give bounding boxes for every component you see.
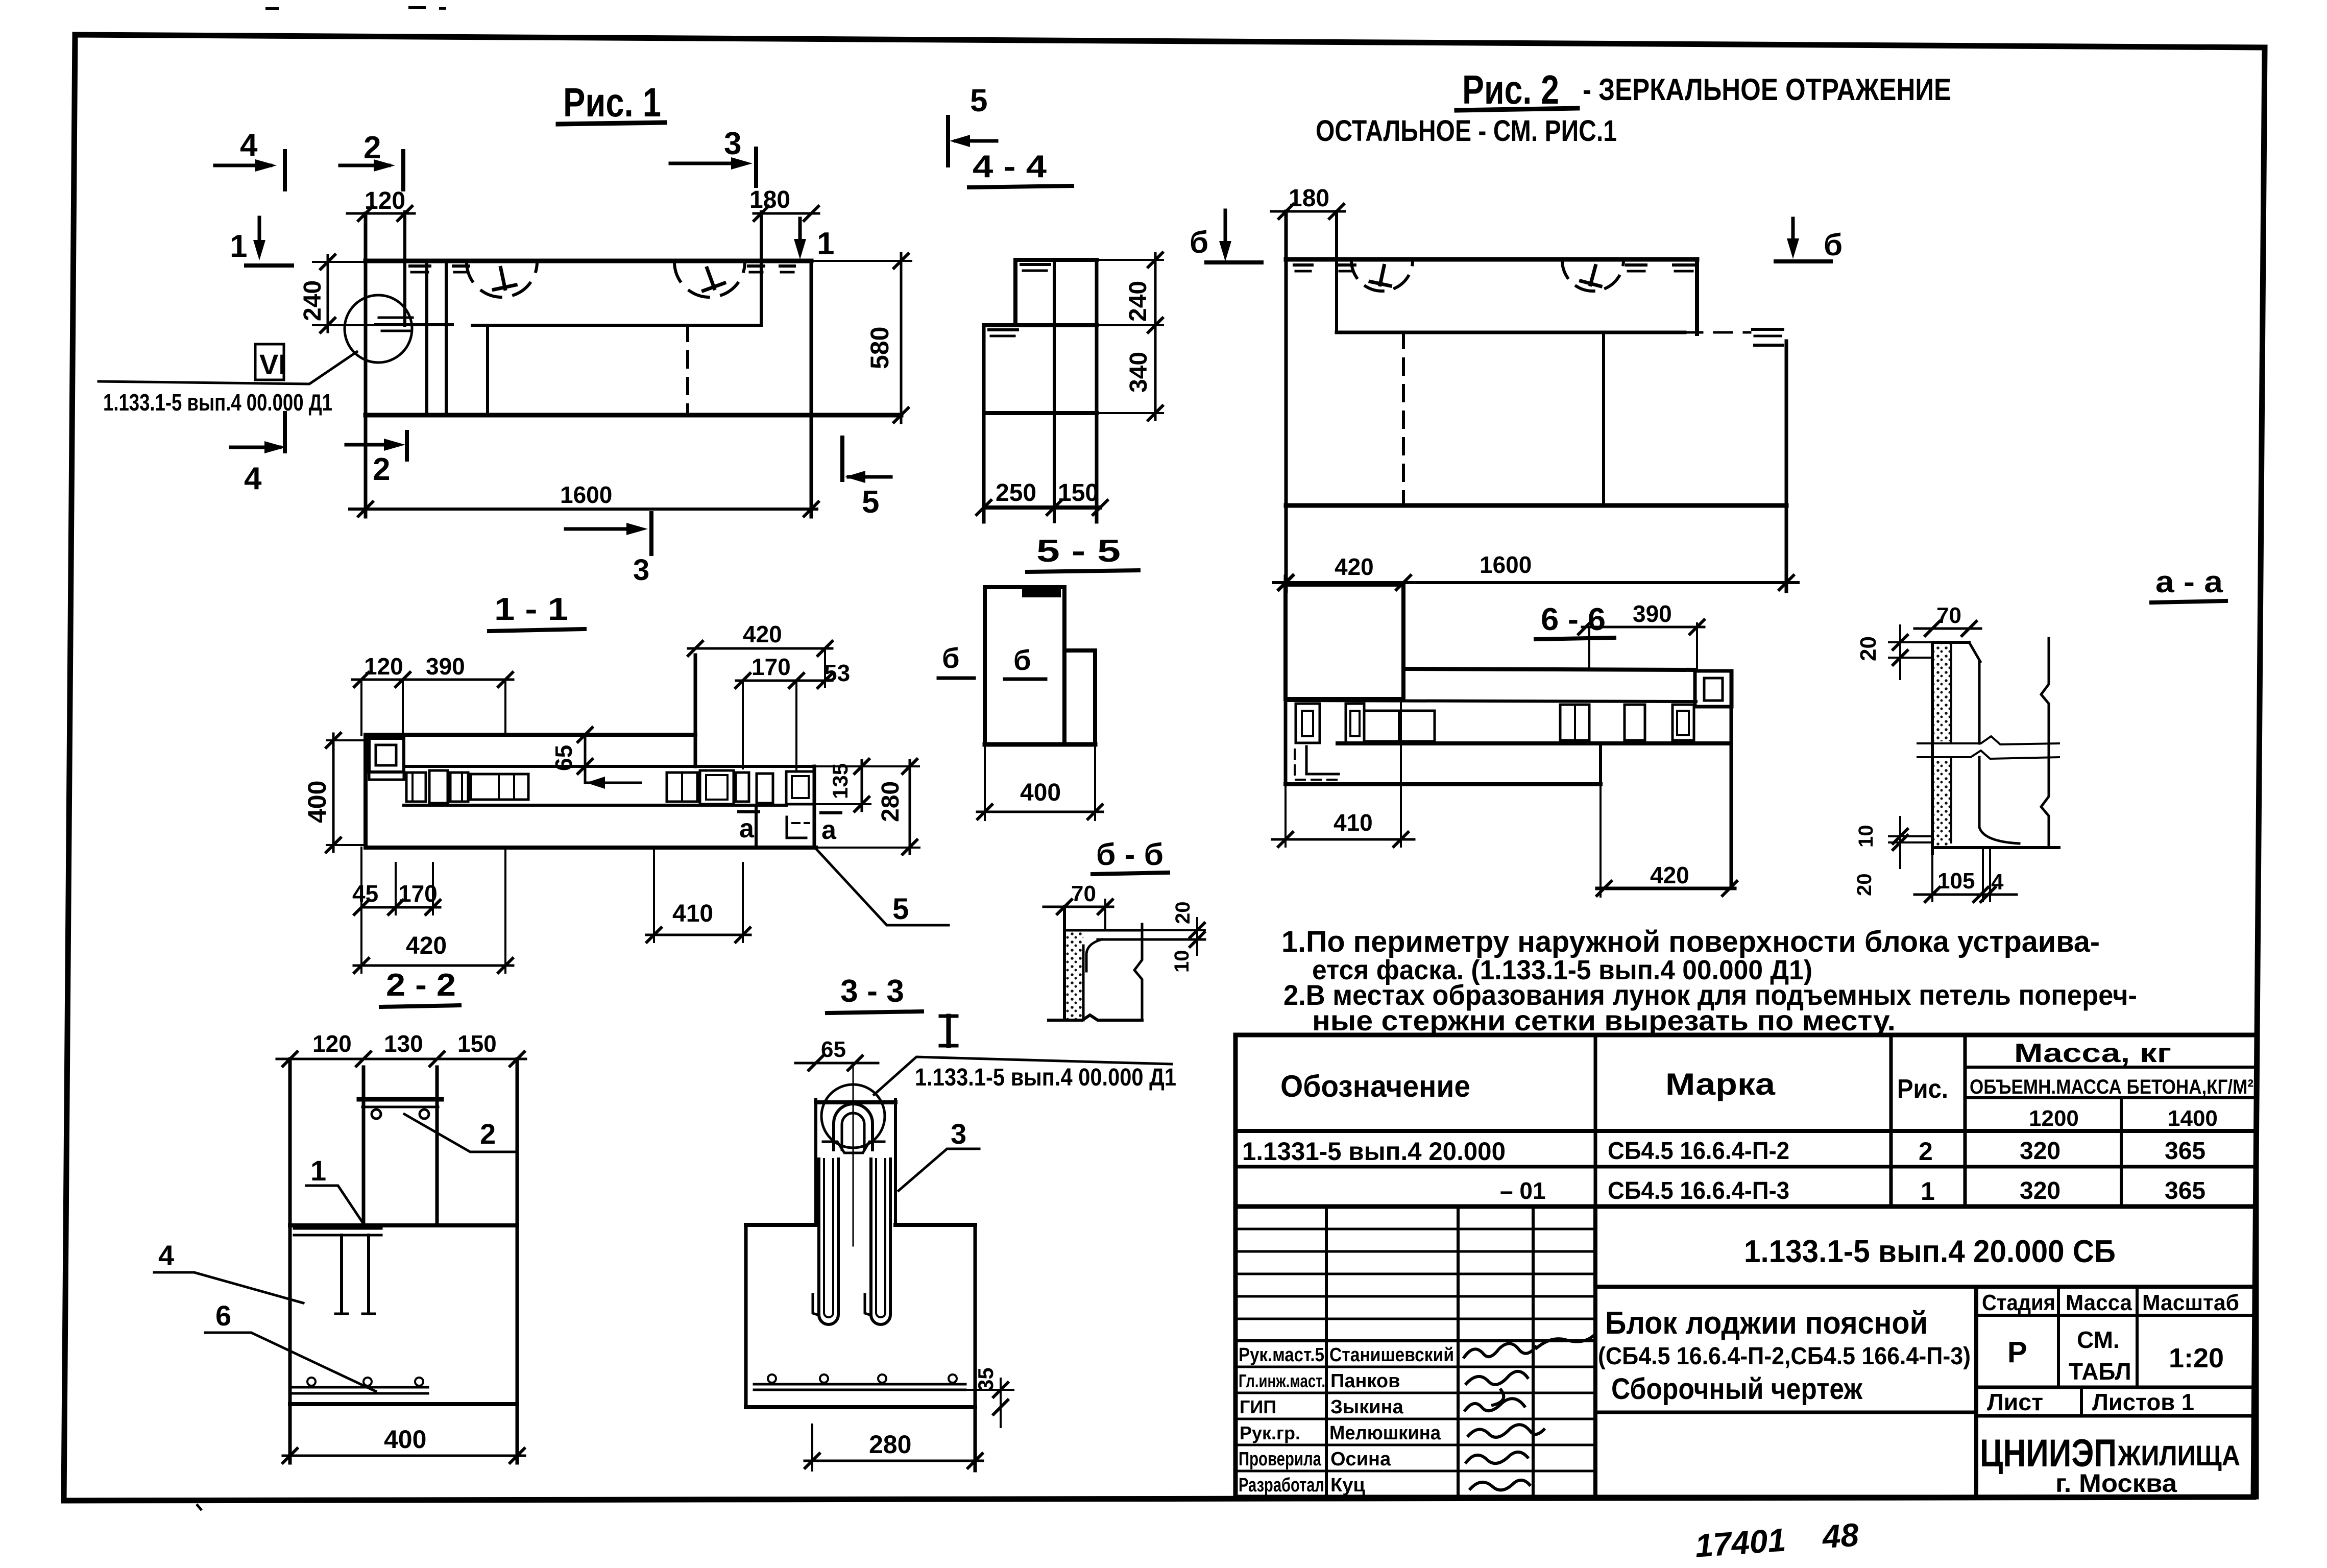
- svg-text:3: 3: [633, 553, 649, 587]
- dust speck 2: [408, 6, 426, 9]
- svg-text:4 - 4: 4 - 4: [973, 149, 1047, 184]
- fascia foot dash: [792, 822, 809, 824]
- svg-text:4: 4: [158, 1239, 174, 1271]
- svg-text:1.1331-5 вып.4 20.000: 1.1331-5 вып.4 20.000: [1242, 1137, 1506, 1166]
- svg-text:420: 420: [406, 932, 447, 959]
- embed box row 2: [429, 770, 448, 803]
- dim 400: [977, 811, 1103, 813]
- б mark left: [938, 642, 974, 678]
- embed box 1: [1296, 704, 1320, 743]
- bottom edge: [1932, 846, 2059, 849]
- leader 2: [404, 1114, 516, 1152]
- cut marker 4 top: [215, 128, 285, 189]
- label underline: [1093, 873, 1168, 874]
- svg-text:410: 410: [672, 900, 713, 927]
- solid vertical: [1602, 332, 1605, 505]
- bottom line: [1049, 1015, 1142, 1020]
- end square inner: [1704, 678, 1723, 701]
- svg-text:б: б: [1824, 228, 1843, 262]
- left embed square inner: [376, 745, 396, 765]
- a mark left: [739, 812, 759, 843]
- bottom edge: [984, 505, 1100, 510]
- parapet right: [435, 1067, 439, 1225]
- svg-text:Лист: Лист: [1987, 1389, 2043, 1415]
- svg-text:Рис. 1: Рис. 1: [563, 80, 661, 125]
- svg-text:45: 45: [352, 880, 378, 907]
- upper right edge: [1695, 259, 1699, 334]
- thin row 5: [1235, 1318, 1595, 1320]
- embed box right small: [736, 773, 749, 802]
- svg-text:Осина: Осина: [1330, 1449, 1391, 1470]
- plate mark 4: [780, 264, 794, 268]
- thin row 4: [1235, 1295, 1595, 1298]
- cut marker 5 bottomright: [842, 438, 891, 520]
- label underline: [381, 1005, 459, 1007]
- lower ext: [1097, 412, 1163, 414]
- block right: [974, 1225, 977, 1470]
- dim 280: [909, 760, 911, 854]
- foot: [1979, 827, 2019, 843]
- strip edge 180: [1335, 211, 1338, 332]
- top edge: [1015, 258, 1097, 262]
- inner rib vertical: [755, 805, 758, 848]
- bottom edge: [1286, 503, 1786, 508]
- dim 580: [811, 260, 911, 262]
- svg-text:1.133.1-5 вып.4 20.000 СБ: 1.133.1-5 вып.4 20.000 СБ: [1744, 1234, 2116, 1269]
- svg-text:240: 240: [299, 280, 326, 321]
- svg-text:1400: 1400: [2168, 1106, 2218, 1131]
- row2 bottom / title block top: [1235, 1204, 2257, 1209]
- svg-text:a: a: [821, 815, 837, 845]
- slab bottom line: [404, 804, 786, 807]
- VI box: [255, 344, 284, 380]
- масса кг subline: [1965, 1066, 2257, 1069]
- svg-text:365: 365: [2165, 1177, 2205, 1204]
- svg-text:ные стержни сетки вырезать: ные стержни сетки вырезать по месту.: [1312, 1004, 1896, 1036]
- step plate marks: [1753, 328, 1783, 331]
- deep portion bottom with 420 dim: [1597, 887, 1735, 890]
- fascia foot: [787, 817, 806, 838]
- svg-text:17401: 17401: [1694, 1521, 1787, 1564]
- block bottom: [746, 1405, 975, 1409]
- fascia box outer: [786, 771, 814, 804]
- cut marker 1 topright: [794, 219, 834, 261]
- svg-text:Панков: Панков: [1330, 1370, 1400, 1392]
- centerline: [853, 1063, 854, 1246]
- cut marker 1 topleft: [230, 218, 292, 266]
- lifting loop inner: [842, 1113, 864, 1150]
- mesh studs: [768, 1374, 776, 1383]
- cut marker 2 bottom: [346, 432, 407, 487]
- fascia box a: [757, 774, 773, 803]
- lower step edge: [984, 411, 1097, 415]
- hairpin 2 outer: [871, 1159, 890, 1324]
- svg-text:250: 250: [996, 479, 1036, 506]
- svg-text:1.133.1-5 вып.4 00.000 Д1: 1.133.1-5 вып.4 00.000 Д1: [915, 1064, 1176, 1091]
- svg-text:70: 70: [1936, 603, 1961, 628]
- block bottom: [290, 1402, 517, 1406]
- svg-text:б: б: [942, 642, 960, 674]
- lifting pocket semicircle left: [467, 262, 537, 297]
- left edge: [1284, 576, 1288, 784]
- bolt left: [372, 1109, 381, 1119]
- svg-text:5: 5: [862, 485, 879, 520]
- dust speck 3: [439, 7, 446, 10]
- svg-text:2: 2: [373, 452, 390, 487]
- block top right: [895, 1223, 975, 1227]
- thin row 1: [1235, 1228, 1595, 1231]
- chamfer: [1969, 642, 1980, 662]
- svg-text:420: 420: [1335, 553, 1374, 580]
- mesh: [754, 1383, 965, 1386]
- loop glyph right: [696, 264, 725, 293]
- step line left fragment: [376, 323, 452, 326]
- svg-text:420: 420: [1650, 862, 1689, 888]
- svg-text:1: 1: [1921, 1177, 1935, 1205]
- svg-text:a: a: [739, 814, 755, 843]
- svg-text:2: 2: [1919, 1137, 1933, 1166]
- dim 240: [1154, 253, 1157, 332]
- parapet top plate: [359, 1097, 442, 1102]
- dim 420 topright: [688, 647, 832, 650]
- block left edge: [364, 213, 368, 517]
- slab top edge: [1403, 669, 1695, 670]
- leader to VI label: [99, 352, 357, 384]
- dim 240: [313, 261, 366, 263]
- hairpin 2 inner: [876, 1159, 885, 1317]
- pocket semicircle right: [1562, 260, 1623, 291]
- svg-text:1: 1: [817, 226, 834, 261]
- right edge: [1730, 671, 1733, 888]
- лист row bottom: [1976, 1414, 2257, 1418]
- pocket semicircle left: [1351, 260, 1413, 291]
- svg-text:VI: VI: [259, 348, 286, 380]
- label underline: [2151, 601, 2226, 602]
- svg-text:Зыкина: Зыкина: [1330, 1396, 1404, 1418]
- svg-text:Обозначение: Обозначение: [1280, 1069, 1470, 1103]
- svg-text:580: 580: [865, 327, 894, 369]
- svg-text:б: б: [1013, 644, 1031, 676]
- hairpin 2 hook: [865, 1294, 871, 1315]
- portion step vline: [1599, 743, 1602, 784]
- dim 250 150: [977, 500, 991, 515]
- svg-text:1600: 1600: [560, 481, 612, 508]
- end square outer: [1695, 671, 1732, 707]
- dim 280: [811, 1425, 813, 1470]
- anchor leg 1: [340, 1235, 343, 1314]
- inner concrete edge: [1082, 946, 1085, 1020]
- label underline: [827, 1011, 922, 1013]
- embed box right wide: [667, 773, 697, 802]
- staff/title divider: [1593, 1207, 1597, 1497]
- dim 400: [327, 739, 366, 741]
- hairpin 1 inner: [824, 1159, 833, 1317]
- svg-text:ОСТАЛЬНОЕ - СМ. РИС.1: ОСТАЛЬНОЕ - СМ. РИС.1: [1316, 114, 1617, 148]
- block right: [516, 1059, 519, 1463]
- loop glyph left: [1370, 263, 1394, 286]
- б mark inner: [1005, 644, 1046, 679]
- svg-text:Масса, кг: Масса, кг: [2014, 1039, 2171, 1068]
- svg-text:3: 3: [724, 126, 741, 161]
- dim 120 390 top: [352, 679, 513, 681]
- glyph I: [940, 1016, 957, 1046]
- anchor leg 2: [367, 1235, 370, 1314]
- cut marker 5 topright: [948, 83, 997, 165]
- left embed base: [369, 772, 404, 780]
- svg-text:- ЗЕРКАЛЬНОЕ ОТРАЖЕНИЕ: - ЗЕРКАЛЬНОЕ ОТРАЖЕНИЕ: [1583, 73, 1951, 107]
- dim 180: [754, 212, 819, 215]
- title underline: [558, 123, 665, 124]
- name cell bottom: [1595, 1411, 1976, 1414]
- svg-text:2 - 2: 2 - 2: [386, 968, 456, 1003]
- embed long box: [471, 774, 528, 800]
- detail circle I: [821, 1084, 885, 1148]
- right step rect: [1064, 650, 1095, 744]
- hairpin 1 hook: [813, 1294, 819, 1315]
- svg-text:1600: 1600: [1480, 551, 1532, 578]
- svg-text:135: 135: [828, 763, 852, 799]
- mesh lines: [292, 1386, 428, 1389]
- anchor plate: [294, 1227, 381, 1230]
- wall top: [1932, 641, 1969, 644]
- plate marks top edge: [1294, 263, 1312, 267]
- signatures: [1464, 1343, 1536, 1357]
- dust speck 1: [265, 7, 279, 10]
- svg-text:170: 170: [752, 654, 791, 680]
- step vertical: [694, 655, 697, 766]
- plate mark mid: [989, 328, 1017, 331]
- block top edge: [366, 259, 811, 263]
- leader 5: [816, 849, 949, 925]
- title underline: [1457, 108, 1578, 110]
- svg-text:4: 4: [244, 461, 262, 496]
- wall outer edge: [1931, 642, 1934, 854]
- svg-text:340: 340: [1125, 352, 1152, 393]
- svg-text:3: 3: [951, 1118, 966, 1150]
- svg-text:1:20: 1:20: [2169, 1343, 2224, 1373]
- label underline: [969, 186, 1072, 187]
- label underline: [1536, 638, 1614, 639]
- svg-text:ЖИЛИЩА: ЖИЛИЩА: [2117, 1439, 2240, 1471]
- dim 420 bottom: [360, 848, 362, 973]
- staff col 1: [1325, 1207, 1328, 1497]
- dim 410: [1272, 838, 1414, 841]
- block right edge: [810, 261, 813, 517]
- strip edge 120: [403, 212, 406, 325]
- left portion bottom: [1286, 782, 1601, 786]
- svg-text:Разработал: Разработал: [1239, 1475, 1324, 1496]
- svg-text:(СБ4.5 16.6.4-П-2,СБ4.5 166.4-: (СБ4.5 16.6.4-П-2,СБ4.5 166.4-П-3): [1598, 1343, 1971, 1370]
- объемн subline: [1965, 1096, 2257, 1099]
- handwritten page numbers: [1694, 1516, 1860, 1564]
- block left: [288, 1059, 292, 1463]
- svg-text:Блок лоджии поясной: Блок лоджии поясной: [1605, 1306, 1928, 1341]
- embed box 5: [1625, 705, 1645, 740]
- top edge: [366, 733, 695, 737]
- cut marker 4 bottom: [231, 413, 286, 496]
- svg-text:390: 390: [1633, 600, 1672, 627]
- svg-text:120: 120: [364, 653, 403, 680]
- mid step edge: [984, 323, 1097, 327]
- stem right: [894, 1099, 897, 1225]
- tall rect: [985, 587, 1064, 744]
- ext left: [984, 744, 986, 820]
- svg-text:280: 280: [869, 1430, 911, 1459]
- inner face lower: [1978, 757, 1981, 827]
- left edge lower: [982, 325, 986, 522]
- notch vertical: [760, 212, 763, 325]
- dim 120: [347, 212, 415, 215]
- top ext: [1097, 259, 1163, 261]
- svg-text:1 - 1: 1 - 1: [494, 592, 568, 627]
- svg-text:2: 2: [363, 130, 381, 165]
- svg-text:4: 4: [240, 128, 258, 163]
- стадия/масса divider: [2057, 1287, 2060, 1387]
- svg-text:Р: Р: [2007, 1336, 2027, 1369]
- plate mark 1: [410, 264, 430, 268]
- step dim ext: [1599, 784, 1602, 897]
- inner face upper: [1978, 662, 1981, 743]
- rib dim 420: [1277, 582, 1413, 584]
- row1 bottom: [1235, 1165, 2257, 1169]
- label underline: [489, 629, 585, 631]
- left edge dim ext: [1284, 784, 1287, 847]
- right edge: [813, 766, 816, 848]
- recess trapezoid: [823, 1142, 884, 1153]
- svg-text:120: 120: [312, 1030, 352, 1057]
- thin row 3: [1235, 1273, 1595, 1275]
- leader I ref: [874, 1057, 1172, 1095]
- plate mark 2: [453, 264, 469, 268]
- concrete stipple: [1934, 644, 1951, 741]
- svg-text:1.По периметру наружной пове: 1.По периметру наружной поверхности блок…: [1281, 925, 2100, 958]
- svg-text:Масса: Масса: [2066, 1290, 2132, 1315]
- svg-text:Рис.: Рис.: [1897, 1074, 1948, 1104]
- dim 410 bottom: [653, 848, 655, 942]
- label underline: [1027, 570, 1138, 572]
- header bottom: [1235, 1129, 2257, 1133]
- svg-text:а - а: а - а: [2155, 565, 2223, 599]
- band bottom heavy: [1338, 741, 1731, 745]
- svg-text:6 - 6: 6 - 6: [1541, 602, 1606, 637]
- lifting loop outer: [834, 1104, 872, 1150]
- svg-text:б: б: [1190, 225, 1208, 259]
- left embed square outer: [369, 738, 404, 772]
- a mark right: [821, 813, 841, 845]
- dashed vertical: [1402, 332, 1405, 505]
- block top: [290, 1223, 517, 1227]
- dim 20 right: [1196, 918, 1198, 955]
- svg-text:150: 150: [457, 1030, 497, 1057]
- bolt right: [420, 1109, 429, 1119]
- name/stage divider: [1974, 1287, 1978, 1497]
- rib rect: [1286, 585, 1403, 699]
- dashed section vertical: [686, 325, 689, 415]
- svg-text:365: 365: [2165, 1138, 2205, 1165]
- svg-text:105: 105: [1937, 869, 1975, 894]
- joint double line b: [445, 261, 448, 415]
- svg-text:65: 65: [550, 745, 577, 771]
- step line: [472, 324, 761, 327]
- bottom heavy line: [985, 742, 1095, 747]
- svg-text:320: 320: [2020, 1138, 2061, 1165]
- svg-text:390: 390: [426, 653, 465, 680]
- top edge: [1064, 929, 1142, 932]
- detail circle VI: [345, 295, 412, 363]
- svg-text:Стадия: Стадия: [1982, 1290, 2055, 1315]
- лист/листов divider: [2080, 1387, 2083, 1416]
- band top line: [1286, 701, 1696, 702]
- svg-text:5 - 5: 5 - 5: [1036, 534, 1121, 569]
- svg-text:130: 130: [384, 1030, 423, 1057]
- svg-text:5: 5: [970, 83, 987, 118]
- left edge: [1063, 907, 1066, 1020]
- svg-text:СБ4.5 16.6.4-П-3: СБ4.5 16.6.4-П-3: [1608, 1177, 1789, 1204]
- svg-text:Листов 1: Листов 1: [2092, 1389, 2194, 1415]
- big doc number cell line: [1595, 1285, 2257, 1289]
- svg-text:Куц: Куц: [1330, 1475, 1365, 1496]
- concrete stipple: [1066, 930, 1083, 1020]
- svg-text:240: 240: [1125, 281, 1152, 322]
- dim 45 170 bottom: [361, 906, 440, 909]
- svg-text:1200: 1200: [2029, 1106, 2079, 1131]
- svg-text:Проверила: Проверила: [1239, 1449, 1322, 1470]
- block top edge: [1286, 257, 1697, 262]
- stem left: [814, 1099, 817, 1225]
- fascia box inner: [792, 776, 809, 798]
- svg-text:6: 6: [215, 1299, 231, 1332]
- dim 340: [1154, 325, 1157, 420]
- svg-text:Марка: Марка: [1665, 1067, 1776, 1101]
- staff top: [1235, 1339, 1595, 1342]
- cut marker б right: [1776, 219, 1843, 262]
- svg-text:Масштаб: Масштаб: [2142, 1290, 2239, 1315]
- right top ext: [814, 765, 919, 767]
- loop glyph right: [1581, 263, 1605, 287]
- embed box right tall: [700, 770, 734, 804]
- inner vertical: [486, 325, 489, 415]
- svg-text:1: 1: [230, 229, 247, 264]
- left edge: [1284, 211, 1288, 591]
- stipple inner edge upper: [1950, 644, 1952, 743]
- svg-text:180: 180: [1289, 185, 1329, 212]
- staff col 2: [1457, 1207, 1460, 1497]
- svg-text:ГИП: ГИП: [1240, 1396, 1276, 1417]
- dim line 120 130 150: [277, 1058, 526, 1060]
- table outline: [1235, 1035, 2257, 1497]
- ext vertical dim: [1104, 900, 1106, 930]
- cut marker 3 bottom: [566, 513, 651, 587]
- col марка/рис: [1889, 1035, 1893, 1207]
- svg-text:410: 410: [1334, 809, 1373, 836]
- plate marks at circle: [379, 317, 413, 319]
- break vertical: [1134, 924, 1142, 1020]
- svg-text:Гл.инж.маст.: Гл.инж.маст.: [1239, 1370, 1325, 1391]
- svg-text:53: 53: [824, 660, 850, 686]
- svg-text:170: 170: [398, 880, 438, 907]
- svg-text:10: 10: [1855, 825, 1877, 848]
- svg-text:Сборочный чертеж: Сборочный чертеж: [1611, 1372, 1863, 1406]
- inner flange line: [404, 765, 814, 768]
- svg-text:35: 35: [974, 1367, 998, 1391]
- svg-text:280: 280: [877, 781, 904, 822]
- right edge: [1095, 260, 1099, 522]
- svg-text:Станишевский: Станишевский: [1329, 1344, 1454, 1366]
- mesh studs: [307, 1378, 316, 1386]
- mid ext: [1097, 324, 1163, 326]
- bottom ext: [816, 847, 919, 849]
- svg-text:400: 400: [1020, 779, 1061, 806]
